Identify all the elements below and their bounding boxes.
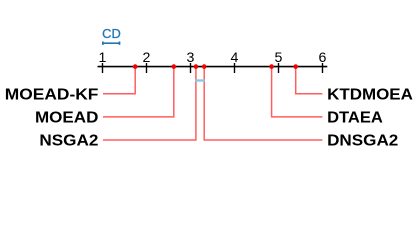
svg-text:DTAEA: DTAEA [327, 110, 383, 127]
svg-text:CD: CD [102, 27, 121, 41]
svg-text:4: 4 [231, 50, 239, 66]
svg-text:1: 1 [99, 50, 107, 66]
svg-text:NSGA2: NSGA2 [39, 133, 98, 150]
svg-text:2: 2 [143, 50, 151, 66]
svg-text:6: 6 [319, 50, 327, 66]
svg-text:MOEAD: MOEAD [35, 110, 98, 127]
svg-text:3: 3 [187, 50, 195, 66]
svg-text:DNSGA2: DNSGA2 [327, 133, 398, 150]
svg-text:KTDMOEA: KTDMOEA [327, 86, 413, 103]
svg-text:MOEAD-KF: MOEAD-KF [5, 86, 99, 103]
svg-text:5: 5 [275, 50, 283, 66]
